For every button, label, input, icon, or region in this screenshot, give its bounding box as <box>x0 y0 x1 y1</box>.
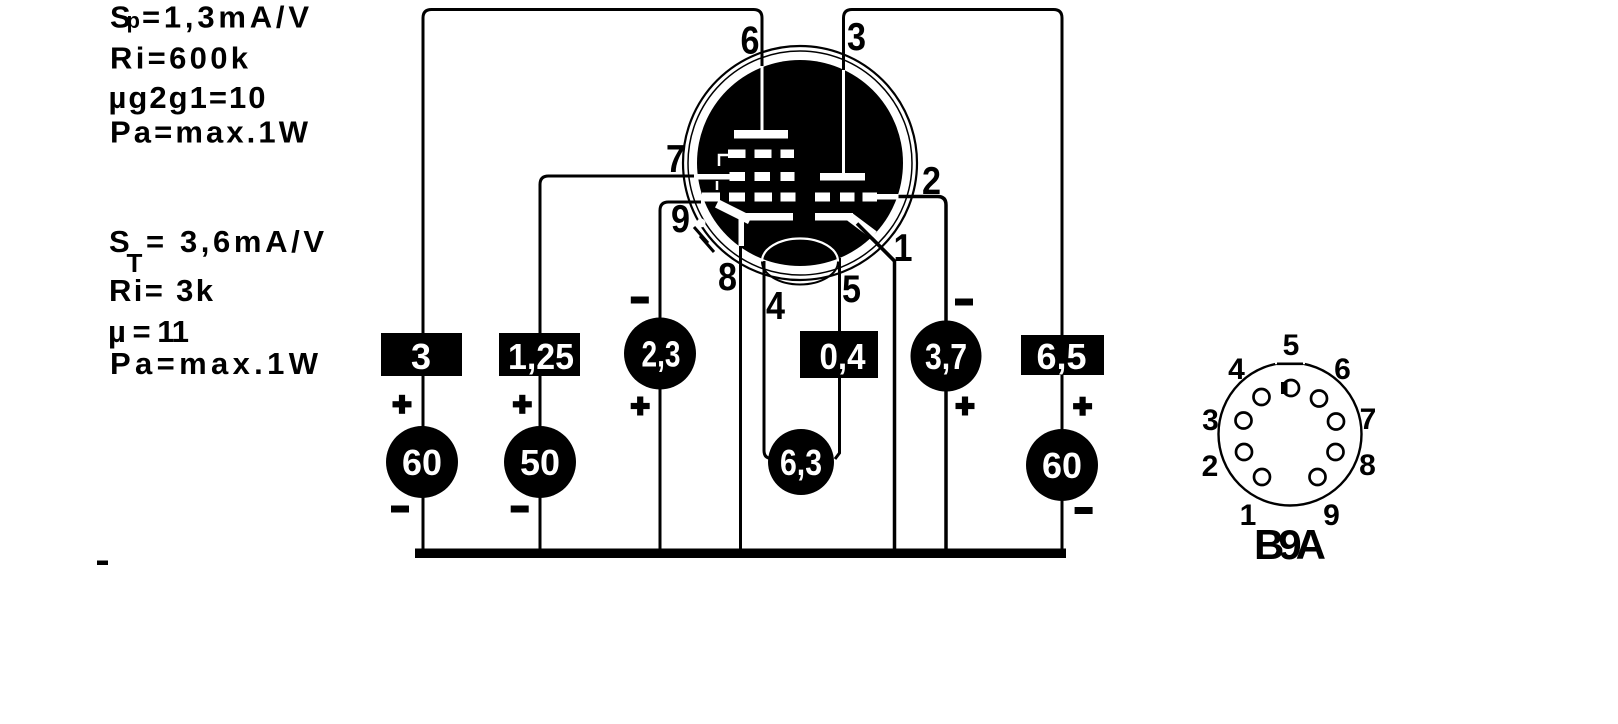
svg-text:5: 5 <box>1283 329 1300 362</box>
pentode grid g2 row dashes <box>730 172 795 181</box>
B9A pin4 hole <box>1254 389 1270 405</box>
wire pin6 top loop to left column <box>423 10 762 554</box>
box 3 <box>381 333 462 377</box>
pentode cathode lead to pin8 <box>739 219 745 246</box>
svg-text:5: 5 <box>842 268 861 311</box>
minus sign col 946 <box>955 299 973 306</box>
plus sign col 1062 <box>1073 397 1092 416</box>
svg-text:6,5: 6,5 <box>1037 336 1087 377</box>
svg-text:3: 3 <box>1202 404 1219 437</box>
B9A pin6 hole <box>1311 391 1327 407</box>
pentode grid support bracket <box>719 155 729 166</box>
pin1 black lead over cathode <box>857 224 895 262</box>
svg-text:2: 2 <box>1202 450 1219 483</box>
triode anode lead pin3 <box>842 70 845 174</box>
svg-text:8: 8 <box>1359 449 1376 482</box>
box 1,25 <box>499 333 580 377</box>
plus sign col 946 <box>956 397 975 416</box>
grid support tick <box>716 181 719 190</box>
meter circle 3,7 <box>911 321 982 392</box>
svg-text:4: 4 <box>766 285 785 328</box>
ground bus bar <box>415 549 1066 559</box>
B9A pin8 hole <box>1328 444 1344 460</box>
svg-text:B9A: B9A <box>1254 521 1326 568</box>
svg-text:µg2g1=10: µg2g1=10 <box>109 80 266 115</box>
meter circle 6,3 <box>768 429 834 495</box>
B9A pin7 hole <box>1328 414 1344 430</box>
wire pin5 down to 6,3 <box>835 258 840 459</box>
svg-text:50: 50 <box>520 442 560 483</box>
tube black disc <box>697 60 903 266</box>
meter circle 50 <box>504 426 576 498</box>
triode cathode diagonal <box>850 217 874 235</box>
B9A pin1 hole <box>1254 469 1270 485</box>
svg-text:6: 6 <box>1334 353 1351 386</box>
svg-text:2,3: 2,3 <box>642 334 681 375</box>
plus sign col 540 <box>513 395 532 414</box>
glass dome black arc <box>762 262 838 285</box>
svg-text:1,25: 1,25 <box>508 336 574 377</box>
plus sign col 423 <box>393 395 412 414</box>
svg-text:9: 9 <box>671 198 690 241</box>
glass dome white arc <box>762 239 838 262</box>
wire pin8 down <box>739 220 742 553</box>
svg-text:60: 60 <box>1042 445 1082 486</box>
pentode anode plate <box>734 130 788 139</box>
minus sign col 1062 <box>1075 507 1093 514</box>
B9A pin9 hole <box>1310 469 1326 485</box>
rim diagonal tick 2 <box>700 236 714 252</box>
svg-text:µ = 11: µ = 11 <box>108 314 189 349</box>
box 0,4 <box>800 331 878 378</box>
svg-text:6,3: 6,3 <box>780 442 822 483</box>
plus sign col 660 <box>631 397 650 416</box>
pentode cathode diagonal <box>717 204 750 221</box>
svg-text:8: 8 <box>718 256 737 299</box>
svg-text:p: p <box>127 8 140 33</box>
pin7 white lead into g2 <box>694 174 730 180</box>
wire pin1 diagonal and down <box>857 224 895 554</box>
minus sign col 423 <box>391 506 409 513</box>
B9A base circle <box>1219 363 1362 506</box>
rim mark white dot near pin9 <box>697 219 706 228</box>
svg-text:7: 7 <box>1360 403 1377 436</box>
minus sign col 660 <box>631 297 649 304</box>
B9A pin5 hole index <box>1281 380 1299 396</box>
wire pin2 to 3,7 column <box>898 197 946 554</box>
svg-text:= 3,6mA/V: = 3,6mA/V <box>146 224 324 259</box>
svg-text:Pa=max.1W: Pa=max.1W <box>110 115 309 150</box>
meter circle 60 left <box>386 426 458 498</box>
box 6,5 <box>1021 335 1104 377</box>
triode anode plate <box>820 173 865 181</box>
wire pin7 to 1,25 column <box>540 176 694 553</box>
pin2 white lead from triode grid <box>877 194 899 200</box>
tube envelope inner circle <box>688 51 912 275</box>
svg-text:60: 60 <box>402 442 442 483</box>
svg-text:6: 6 <box>741 20 760 63</box>
tube envelope outer circle <box>683 46 917 280</box>
svg-text:2: 2 <box>922 160 941 203</box>
meter circle 60 right <box>1026 429 1098 501</box>
pentode grid g1 row dashes <box>702 193 796 202</box>
pentode data line Sp=1,3mA/V <box>110 0 309 35</box>
B9A pin2 hole <box>1236 444 1252 460</box>
svg-text:0,4: 0,4 <box>820 336 866 377</box>
margin dash bottom left <box>97 561 108 566</box>
B9A flat top chord <box>1275 360 1305 364</box>
wire pin3 top loop to right column <box>844 10 1063 554</box>
pentode cathode bar <box>745 213 793 221</box>
svg-text:7: 7 <box>666 138 685 181</box>
pentode anode lead pin6 <box>761 66 764 131</box>
meter circle 2,3 <box>624 318 696 390</box>
triode grid row dashes <box>815 193 877 202</box>
svg-text:Ri= 3k: Ri= 3k <box>109 273 214 308</box>
triode cathode bar <box>815 213 853 221</box>
svg-text:3: 3 <box>847 16 866 59</box>
B9A pin3 hole <box>1236 413 1252 429</box>
minus sign col 540 <box>511 506 529 513</box>
svg-text:3: 3 <box>411 336 431 377</box>
svg-text:3,7: 3,7 <box>925 336 967 377</box>
svg-text:=1,3mA/V: =1,3mA/V <box>142 0 309 35</box>
rim diagonal tick 1 <box>694 227 708 243</box>
wire pin4 down to 6,3 <box>764 261 778 459</box>
svg-text:4: 4 <box>1228 353 1245 386</box>
svg-text:1: 1 <box>894 227 913 270</box>
wire pin9 to 2,3 column <box>660 202 701 553</box>
pentode grid g3 row dashes <box>728 150 794 159</box>
triode data line ST=3,6mA/V <box>109 224 324 278</box>
